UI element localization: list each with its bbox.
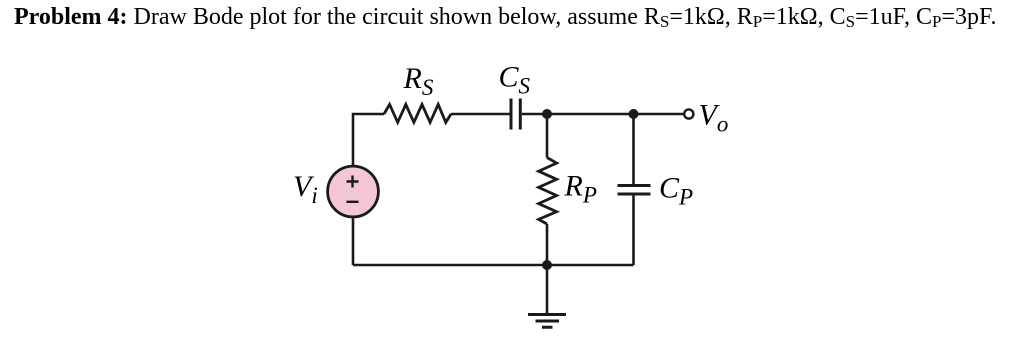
svg-text:RS: RS xyxy=(403,62,434,100)
ground symbol (three bars) xyxy=(528,315,566,328)
node: junction dot on bottom rail xyxy=(542,260,552,270)
capacitor CP (two horizontal plates) xyxy=(618,186,651,195)
title: Problem 4 statement xyxy=(14,4,1024,31)
wire: top node to RP xyxy=(546,114,549,158)
node: junction dot at top of RP branch xyxy=(542,109,552,119)
wire: RP to bottom node xyxy=(546,224,549,265)
output terminal Vo (open circle) xyxy=(684,109,693,118)
capacitor CS (series, two vertical plates) xyxy=(511,99,520,130)
wire: left rail bottom (source bottom to bottom-left corner) xyxy=(352,217,355,265)
svg-text:CP: CP xyxy=(659,172,693,210)
svg-text:Vi: Vi xyxy=(293,170,318,208)
svg-text:CS: CS xyxy=(499,61,531,99)
wire: CS to output terminal xyxy=(522,113,684,116)
wire: CP bottom plate to bottom wire xyxy=(632,196,635,266)
svg-text:RP: RP xyxy=(564,170,597,208)
voltage source Vi (circle) xyxy=(328,166,379,217)
wire: left rail top (source top to top-left corner) xyxy=(353,114,384,166)
voltage source plus sign xyxy=(347,176,359,188)
wire: ground stem xyxy=(546,265,549,315)
voltage source minus sign xyxy=(347,201,359,203)
resistor RS (horizontal zigzag) xyxy=(384,104,451,122)
wire: bottom rail xyxy=(353,264,634,267)
node: junction dot at top of CP branch xyxy=(629,109,639,119)
resistor RP (vertical zigzag) xyxy=(539,158,557,225)
wire: RS to CS xyxy=(451,113,510,116)
svg-text:Vo: Vo xyxy=(699,99,729,137)
wire: top node to CP top plate xyxy=(632,114,635,184)
